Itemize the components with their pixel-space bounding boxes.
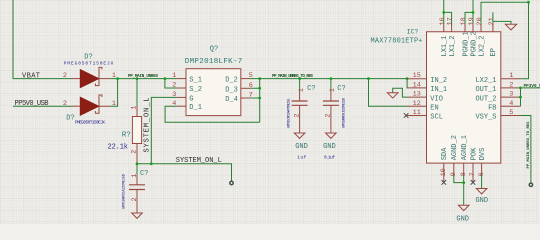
junction [136, 77, 139, 80]
junction [442, 11, 445, 14]
junction [472, 11, 475, 14]
svg-text:GRM188R60J226ME15D: GRM188R60J226ME15D [343, 97, 347, 128]
pin 3 OUT_2 [501, 96, 521, 98]
svg-text:PGND_1: PGND_1 [462, 31, 470, 56]
wire VSY_S down [521, 116, 531, 184]
svg-text:GND: GND [475, 197, 488, 205]
junction [258, 77, 261, 80]
junction [462, 181, 465, 184]
svg-text:VSY_S: VSY_S [475, 114, 496, 122]
pin 16 LX1_1 [443, 24, 445, 32]
wire G to SYSTEM_ON_L [151, 97, 177, 163]
wire DVS to gnd [481, 175, 483, 189]
pin 4 FB [501, 105, 521, 107]
svg-text:11: 11 [413, 109, 421, 117]
svg-text:IN_2: IN_2 [430, 77, 447, 85]
svg-text:2: 2 [63, 100, 67, 108]
svg-text:D?: D? [84, 53, 92, 61]
wire AGND tie [454, 175, 464, 205]
pin 15 IN_2 [407, 78, 426, 80]
wire PP5V0_USB [13, 105, 72, 107]
svg-text:PMEG050T150EJX: PMEG050T150EJX [64, 60, 114, 66]
wire main net (PP_MAIN_UNREG) to Q1 [110, 78, 177, 80]
svg-text:MAX77801ETP+: MAX77801ETP+ [371, 38, 423, 46]
svg-text:2: 2 [293, 114, 301, 118]
svg-text:GND: GND [456, 216, 469, 224]
svg-text:PP_MAIN_UNREG_TO_REG: PP_MAIN_UNREG_TO_REG [272, 75, 313, 79]
svg-text:PGND_2: PGND_2 [470, 31, 478, 56]
svg-text:2: 2 [130, 150, 138, 154]
svg-text:1: 1 [130, 106, 138, 110]
svg-text:S_1: S_1 [189, 77, 202, 85]
op-amp U1 MAX77801ETP+ body [371, 29, 501, 164]
pin 20 LX2_2 [480, 24, 482, 32]
svg-text:PP_MAIN_UNREG: PP_MAIN_UNREG [128, 75, 158, 79]
wire VBAT vertical+horizontal [13, 0, 72, 79]
pin 8 AGND_1 [463, 163, 465, 175]
svg-text:PMEG050T150EJX: PMEG050T150EJX [75, 120, 105, 126]
svg-text:1: 1 [329, 88, 337, 92]
svg-text:Q?: Q? [210, 45, 218, 53]
svg-text:LX2_2: LX2_2 [478, 35, 486, 56]
junction [136, 162, 139, 165]
svg-text:4: 4 [509, 100, 513, 108]
pin 3 G [177, 96, 186, 98]
pin 4 D_1 [177, 105, 186, 107]
svg-text:POK: POK [470, 147, 478, 160]
wire SYSTEM_ON_L run [137, 164, 232, 182]
pin 11 SCL no-connect [407, 115, 426, 117]
svg-text:2: 2 [63, 72, 67, 80]
wire IN_1 branch [406, 79, 408, 88]
svg-text:1: 1 [172, 72, 176, 80]
svg-text:SDA: SDA [441, 147, 449, 160]
svg-text:D_1: D_1 [189, 104, 202, 112]
pin 13 VIO [407, 96, 426, 98]
pin 21 EP [492, 21, 494, 31]
junction [406, 77, 409, 80]
pin 19 PGND_2 [472, 24, 474, 32]
pin 7 POK no-connect [472, 163, 474, 182]
wire Q drain vertical [250, 79, 260, 123]
svg-text:10: 10 [440, 168, 448, 176]
svg-text:D_4: D_4 [225, 96, 238, 104]
capacitor C2 [288, 79, 316, 131]
svg-text:EP: EP [490, 48, 498, 56]
wire S_2 branch [165, 79, 177, 88]
svg-text:2: 2 [325, 114, 333, 118]
svg-text:15: 15 [413, 72, 421, 80]
junction [367, 77, 370, 80]
junction [116, 77, 119, 80]
svg-text:FB: FB [488, 105, 496, 113]
junction [150, 162, 153, 165]
wire EN branch [369, 79, 408, 107]
svg-text:SCL: SCL [430, 114, 443, 122]
pin 12 EN [407, 105, 426, 107]
svg-text:PP_MAIN_UNREG_TO_REG: PP_MAIN_UNREG_TO_REG [527, 121, 531, 169]
pin 7 D_4 [241, 97, 250, 99]
pin 17 LX1_2 [451, 24, 453, 32]
svg-text:1: 1 [509, 72, 513, 80]
svg-text:D_2: D_2 [225, 77, 238, 85]
wire VIO to gnd flag [393, 88, 407, 97]
diode D1 PMEG050T150EJX [63, 53, 116, 87]
svg-text:D?: D? [66, 115, 74, 123]
junction [519, 96, 522, 99]
svg-text:0.1uf: 0.1uf [324, 155, 335, 160]
svg-text:IN_1: IN_1 [430, 86, 447, 94]
svg-text:S_2: S_2 [189, 86, 202, 94]
svg-text:AGND_2: AGND_2 [451, 135, 459, 160]
pin 14 IN_1 [407, 87, 426, 89]
svg-text:2: 2 [131, 197, 139, 201]
svg-text:GND: GND [323, 143, 336, 151]
pin 6 D_3 [241, 87, 250, 89]
svg-text:SYSTEM_ON_L: SYSTEM_ON_L [176, 157, 222, 165]
svg-text:PP3V0_MAIN: PP3V0_MAIN [524, 85, 540, 89]
junction [258, 97, 261, 100]
svg-text:2: 2 [172, 82, 176, 90]
svg-text:C?: C? [337, 85, 345, 93]
pin 6 DVS [481, 163, 483, 175]
wire OUT_1/OUT_2/FB tie [521, 88, 540, 106]
svg-text:R?: R? [122, 131, 131, 139]
svg-text:3: 3 [509, 91, 513, 99]
diode D2 PMEG050T150EJX [63, 95, 116, 126]
svg-text:OUT_2: OUT_2 [475, 95, 496, 103]
resistor R1 22.1k [108, 79, 142, 164]
ground below C2 [294, 130, 308, 160]
wire D2 cathode up to main net [110, 79, 117, 107]
ground flag at EP [505, 24, 516, 30]
ground below C3 [323, 130, 336, 160]
svg-text:AGND_1: AGND_1 [461, 135, 469, 160]
wire LX2_2 over the top to LX2_1 [481, 2, 529, 79]
wire LX1 pair up [444, 0, 452, 24]
svg-text:LX2_1: LX2_1 [475, 77, 496, 85]
svg-text:14: 14 [413, 81, 421, 89]
pin 18 PGND_1 [464, 24, 466, 32]
pin 2 S_2 [177, 87, 186, 89]
svg-text:VBAT: VBAT [22, 72, 40, 80]
ground AGND [456, 205, 469, 224]
pin 9 AGND_2 [453, 163, 455, 175]
svg-text:16: 16 [439, 17, 447, 25]
capacitor C3 [323, 79, 347, 131]
svg-text:GRM188R61A226ME15D: GRM188R61A226ME15D [122, 173, 126, 209]
svg-text:GND: GND [295, 143, 308, 151]
svg-text:IC?: IC? [407, 29, 419, 36]
svg-text:GRM31CR61A476ME15L: GRM31CR61A476ME15L [288, 97, 292, 128]
pin 5 VSY_S [501, 115, 521, 117]
pin 1 LX2_1 [501, 78, 521, 80]
svg-text:2: 2 [509, 81, 513, 89]
wire PGND pair up [465, 0, 473, 24]
svg-text:C?: C? [307, 85, 315, 93]
node open end SYSTEM_ON_L [230, 181, 233, 184]
svg-text:7: 7 [469, 172, 477, 176]
ground DVS [475, 189, 488, 206]
junction [519, 87, 522, 90]
pin 10 SDA no-connect [443, 163, 445, 182]
svg-text:G: G [189, 95, 193, 103]
svg-text:17: 17 [447, 17, 455, 25]
wire EP to gnd [493, 12, 511, 24]
svg-text:5: 5 [509, 109, 513, 117]
svg-text:C?: C? [140, 170, 148, 178]
svg-text:LX1_1: LX1_1 [441, 35, 449, 56]
svg-text:22.1k: 22.1k [108, 143, 129, 151]
svg-text:13: 13 [413, 91, 421, 99]
svg-text:D_3: D_3 [225, 86, 238, 94]
svg-text:19: 19 [468, 17, 476, 25]
wire D_1 elbow [165, 106, 260, 122]
svg-text:DVS: DVS [479, 148, 487, 161]
svg-text:1: 1 [298, 88, 306, 92]
svg-text:OUT_1: OUT_1 [475, 86, 496, 94]
svg-text:SYSTEM_ON_L: SYSTEM_ON_L [144, 98, 152, 153]
junction [298, 77, 301, 80]
svg-text:12: 12 [413, 100, 421, 108]
pin 2 OUT_1 [501, 87, 521, 89]
ground flag at VIO [387, 93, 398, 98]
node open end VSY_S [529, 183, 532, 186]
svg-text:PP5V0_USB: PP5V0_USB [15, 100, 49, 108]
junction [164, 77, 167, 80]
svg-text:DMP2018LFK-7: DMP2018LFK-7 [185, 58, 243, 66]
svg-text:VIO: VIO [430, 95, 443, 103]
svg-text:1uf: 1uf [297, 155, 306, 160]
pin 5 D_2 [241, 78, 250, 80]
capacitor C1 [122, 164, 148, 211]
junction [527, 1, 530, 4]
svg-text:EN: EN [430, 105, 438, 113]
svg-text:LX1_2: LX1_2 [449, 35, 457, 56]
svg-text:18: 18 [460, 17, 468, 25]
svg-text:1: 1 [131, 174, 139, 178]
wire main net to IC [260, 78, 407, 80]
junction [330, 77, 333, 80]
junction [258, 87, 261, 90]
ground below C1 [132, 211, 143, 218]
pin 1 S_1 [177, 78, 186, 80]
svg-text:20: 20 [476, 17, 484, 25]
transistor Q1 DMP2018LFK-7 body [172, 45, 253, 115]
